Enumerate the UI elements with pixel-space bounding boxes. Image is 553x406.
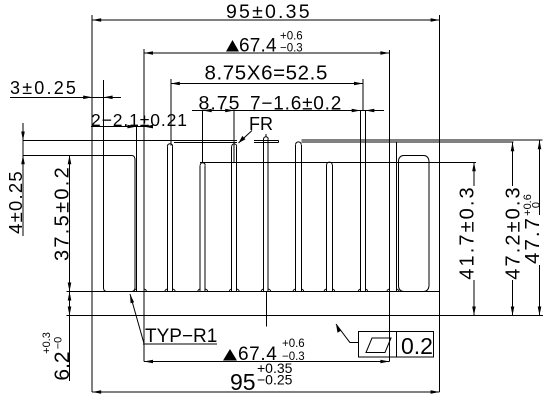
slot 6 top cap: [327, 162, 333, 165]
slot 2 right wall: [204, 165, 206, 291]
hole 2.1 right slot: left wall (extension for both 67.4 dims, crosses FCF box): [388, 50, 390, 362]
dimension 3±0.25: dim line under text: [10, 96, 121, 98]
slot 4 center mark below part: [265, 292, 267, 327]
arrows 67.4 top: [144, 51, 153, 55]
svg-text:95: 95: [230, 369, 256, 395]
part outline: left edge of part (also extension line for top and bottom 95 dims): [91, 15, 93, 392]
hole 2.1 right slot: right wall: [396, 142, 398, 291]
svg-text:0: 0: [531, 202, 543, 208]
dimension 41.7: dim line segments: [473, 162, 475, 186]
dimension 95±0.35 top: dim line: [92, 19, 439, 21]
arrows 7-1.6 (outside pointing in): [352, 109, 361, 113]
svg-text:−0.3: −0.3: [280, 43, 303, 55]
svg-text:TYP−R1: TYP−R1: [145, 326, 217, 347]
dimension 52.5: dim line: [171, 83, 363, 85]
leader FR: diagonal: [239, 131, 253, 144]
slot 1 top cap: [167, 144, 172, 147]
fillet R1 slot 6 feet: [324, 289, 335, 291]
arrows 41.7: [472, 162, 476, 171]
feature control frame: leader horizontal: [350, 342, 359, 344]
svg-text:+0.3: +0.3: [41, 332, 53, 354]
slot 1 right wall: [172, 146, 174, 291]
dimension 8.75 and 7-1.6: shared baseline under texts: [192, 110, 384, 112]
part outline: top surface lower line (right section + extension to 47.2 dim): [302, 141, 514, 143]
fillet R1 slot 5 feet: [293, 289, 304, 291]
slot 2 top cap: [200, 163, 205, 166]
fillet R1 hole 2.1 left feet: [134, 289, 146, 291]
slot 4 (center) right wall: [267, 139, 269, 292]
svg-text:6.2: 6.2: [51, 351, 74, 380]
dimension 8.75: right extension (slot3 center): [233, 111, 235, 163]
slot 1 left wall: [166, 146, 168, 291]
leader TYP-R1: underline: [143, 343, 217, 345]
arrows 4±0.25 (outside pointing in): [21, 132, 25, 141]
arrows 6.2 (outside pointing in): [68, 292, 72, 301]
slot 3 left wall: [231, 146, 233, 291]
slot 5 right wall: [300, 145, 302, 292]
slot 4 raised top cap: [264, 137, 269, 139]
wire: small vertical at top opening left edge: [277, 141, 279, 143]
arrows 37.5 (inside pointing out): [68, 155, 72, 164]
part outline: bottom surface (extends as extension line for right-side dims): [67, 315, 544, 317]
fillet R1 slot 2 feet: [198, 289, 208, 291]
part outline: internal shelf line (also extension line of 41.7 dim): [200, 161, 476, 163]
slot 2 left wall: [199, 165, 201, 291]
part outline: top surface lower line (middle section): [174, 141, 237, 143]
dimension 67.4 top: dim line: [144, 52, 389, 54]
svg-text:0.2: 0.2: [401, 333, 433, 359]
part outline: left cavity left wall with bottom fillet R1: [103, 141, 105, 289]
dimension 8.75: left extension (slot2 center): [202, 111, 204, 164]
svg-text:8.75X6=52.5: 8.75X6=52.5: [205, 62, 328, 85]
dimension 47.7: dim line segments: [539, 140, 541, 215]
arrows 52.5: [171, 82, 180, 86]
part outline: internal floor line (also extension for 37.5 and 6.2 dims): [67, 291, 440, 293]
dimension 4±0.25: dim line: [22, 123, 24, 236]
slot 5 left wall: [295, 145, 297, 292]
svg-text:41.7±0.3: 41.7±0.3: [457, 185, 479, 280]
arrows 95 top: [92, 18, 101, 22]
svg-text:3±0.25: 3±0.25: [10, 78, 78, 98]
flatness symbol parallelogram: [366, 338, 391, 353]
dimension 52.5: right extension line: [362, 79, 364, 111]
arrow FR leader tip: [239, 136, 246, 143]
datum triangle bottom 67.4: [223, 349, 237, 361]
right cavity rounded rectangle: [404, 155, 424, 157]
hole 2.1 left slot: left wall (extends up to 2-2.1 dim line): [135, 127, 137, 292]
arrows 3±0.25 (outside pointing in): [83, 96, 92, 100]
part outline: top surface upper line (right section + extension to 47.7 dim): [302, 139, 543, 141]
leader TYP-R1: diagonal to fillet: [130, 294, 144, 344]
slot 5 top cap: [296, 142, 302, 145]
dimension 37.5 / 6.2: shared dim line: [69, 156, 71, 381]
dimension 52.5: left extension line: [170, 79, 172, 146]
svg-text:FR: FR: [249, 114, 273, 134]
svg-text:4±0.25: 4±0.25: [5, 170, 26, 234]
slot 7 right wall (extends up to 1.6 dim line): [364, 111, 366, 292]
arrows 47.2: [511, 142, 515, 151]
arrow TYP-R1 leader tip: [130, 294, 134, 303]
slot 4 center mark above: [265, 134, 267, 137]
fillet R1 slot 4 feet: [261, 289, 270, 291]
slot 3 right wall: [236, 146, 238, 291]
arrows 8.75: [203, 109, 212, 113]
svg-text:37.5±0.2: 37.5±0.2: [52, 165, 74, 261]
part outline: right edge of part (also extension line for top and bottom 95 dims): [439, 15, 441, 392]
arrows 47.7: [538, 140, 542, 149]
part outline: left tab bottom + cavity ceiling with corner R3 into right wall of left cavity: [23, 155, 132, 157]
hole 2.1 left slot: right wall (extends up to top 67.4 dim, down used by bottom 67.4): [143, 49, 145, 362]
arrows 2-2.1 (outside pointing in): [127, 125, 136, 129]
dimension 2-2.1±0.21: dim line under text: [91, 126, 153, 128]
svg-text:67.4: 67.4: [239, 36, 277, 57]
part outline: top surface upper line (left section with tab): [23, 140, 237, 142]
svg-text:95±0.35: 95±0.35: [226, 1, 312, 23]
datum triangle top 67.4: [226, 40, 239, 52]
svg-text:7−1.6±0.2: 7−1.6±0.2: [250, 94, 342, 115]
fillet R1 slot 1 feet: [165, 289, 175, 291]
svg-text:8.75: 8.75: [199, 93, 241, 115]
slot 6 left wall: [326, 165, 328, 292]
svg-text:−0.25: −0.25: [257, 372, 293, 388]
dimension 47.2: dim line segments: [512, 142, 514, 186]
fillet R1 slot 7 feet: [358, 289, 367, 291]
arrows 67.4 bottom: [144, 360, 153, 364]
slot 7 left wall (extends up to 1.6 dim line): [360, 111, 362, 292]
slot 4 (center) left wall: [263, 139, 265, 292]
arrow FCF leader tip: [336, 324, 341, 333]
arrows 95 bottom: [92, 390, 101, 394]
fillet R1 slot 3 feet: [229, 289, 239, 291]
svg-text:+0.6: +0.6: [280, 31, 303, 43]
svg-text:−0: −0: [53, 337, 65, 350]
fillet R1 hole 2.1 right feet: [387, 289, 399, 291]
svg-text:47.7: 47.7: [521, 216, 544, 264]
svg-text:2−2.1±0.21: 2−2.1±0.21: [91, 110, 188, 130]
slot 6 right wall: [331, 165, 333, 292]
svg-text:+0.6: +0.6: [282, 338, 305, 350]
slot 3 top cap: [232, 144, 237, 147]
feature control frame: leader diagonal: [336, 324, 350, 343]
feature control frame: box: [359, 331, 434, 357]
dimension 67.4 bottom: dim line: [144, 361, 389, 363]
dimension 3±0.25: right extension line (left cavity wall extended up): [103, 80, 105, 141]
dimension 95 bottom: dim line: [92, 391, 439, 393]
